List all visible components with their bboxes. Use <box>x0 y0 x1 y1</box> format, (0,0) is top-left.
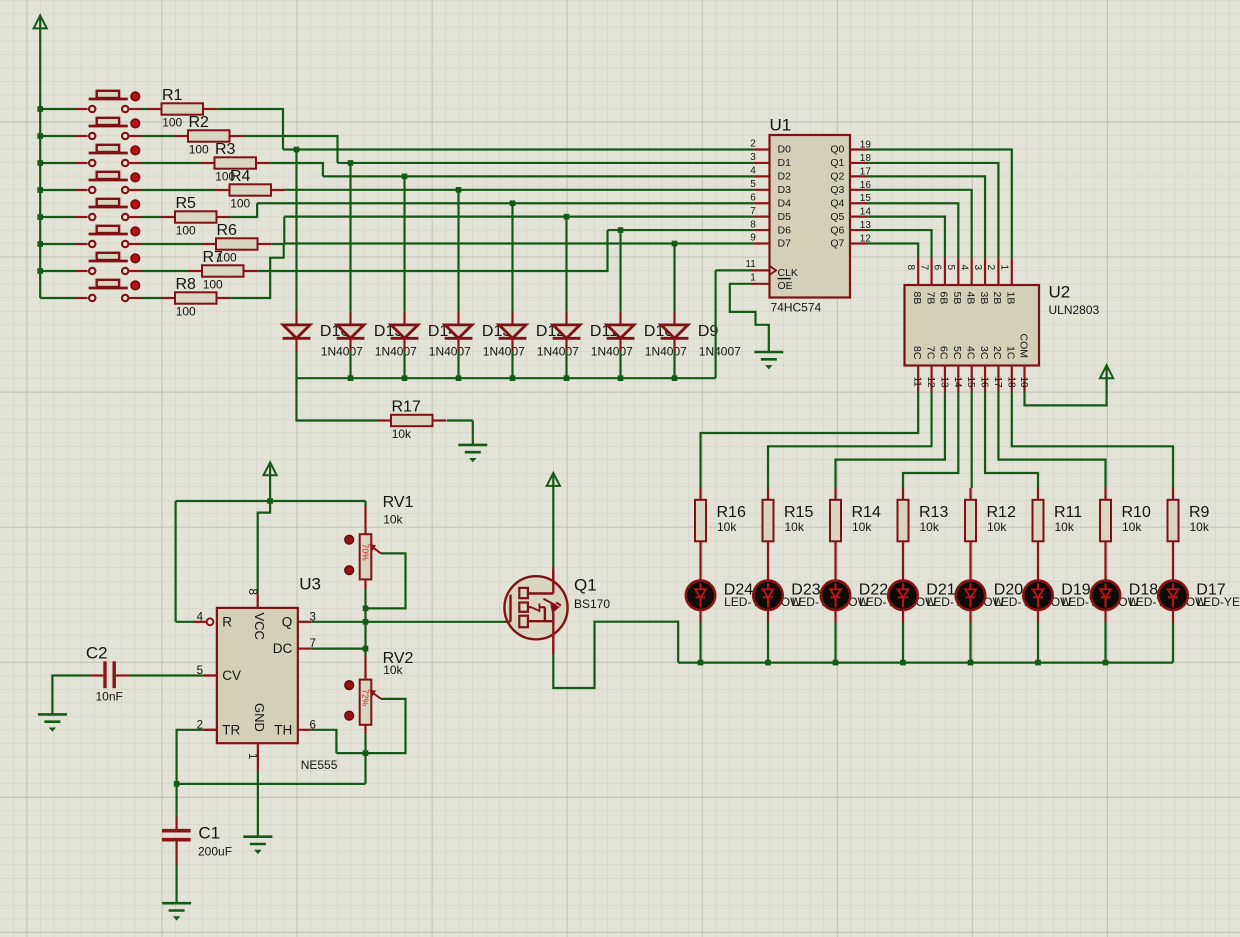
svg-text:ULN2803: ULN2803 <box>1049 303 1100 317</box>
svg-text:100: 100 <box>176 305 196 319</box>
svg-text:72%: 72% <box>361 689 371 706</box>
svg-text:VCC: VCC <box>252 613 267 640</box>
svg-text:C1: C1 <box>198 824 220 843</box>
svg-text:5: 5 <box>750 179 756 190</box>
svg-text:Q: Q <box>282 614 293 629</box>
svg-text:10k: 10k <box>920 520 940 534</box>
svg-text:RV1: RV1 <box>383 494 414 511</box>
svg-text:COM: COM <box>1017 334 1029 359</box>
svg-text:13: 13 <box>938 377 949 389</box>
svg-text:Q4: Q4 <box>830 197 844 209</box>
svg-text:C2: C2 <box>86 644 108 663</box>
svg-text:8: 8 <box>246 589 258 595</box>
svg-text:R1: R1 <box>162 87 183 104</box>
svg-text:5B: 5B <box>951 292 963 305</box>
svg-text:10k: 10k <box>1122 520 1142 534</box>
svg-text:R15: R15 <box>784 504 813 521</box>
svg-text:18: 18 <box>1005 377 1016 389</box>
svg-text:16: 16 <box>979 377 990 389</box>
svg-text:8: 8 <box>750 219 756 230</box>
svg-text:1B: 1B <box>1005 292 1017 305</box>
svg-text:GND: GND <box>252 703 267 732</box>
svg-text:Q1: Q1 <box>574 576 597 595</box>
svg-text:R16: R16 <box>717 504 746 521</box>
svg-text:3C: 3C <box>978 346 990 360</box>
svg-text:6: 6 <box>750 192 756 203</box>
svg-text:8C: 8C <box>911 346 923 360</box>
svg-text:10nF: 10nF <box>96 690 123 704</box>
svg-text:5: 5 <box>945 265 956 271</box>
svg-text:4: 4 <box>958 265 969 271</box>
svg-text:R14: R14 <box>852 504 881 521</box>
svg-text:NE555: NE555 <box>301 758 338 772</box>
svg-text:D1: D1 <box>778 157 792 169</box>
svg-text:7: 7 <box>750 206 756 217</box>
svg-text:R8: R8 <box>176 276 197 293</box>
svg-text:Q1: Q1 <box>830 157 844 169</box>
svg-text:R6: R6 <box>217 222 238 239</box>
svg-text:D2: D2 <box>778 171 792 183</box>
svg-text:10k: 10k <box>852 520 872 534</box>
svg-text:10k: 10k <box>1190 520 1210 534</box>
svg-text:17: 17 <box>992 377 1003 389</box>
svg-text:D0: D0 <box>778 144 792 156</box>
svg-text:10k: 10k <box>383 663 403 677</box>
svg-text:6B: 6B <box>938 292 950 305</box>
svg-text:10: 10 <box>1018 377 1029 389</box>
svg-text:D7: D7 <box>778 238 792 250</box>
svg-text:6C: 6C <box>938 346 950 360</box>
svg-text:R13: R13 <box>919 504 948 521</box>
svg-text:OE: OE <box>778 280 793 292</box>
svg-text:Q6: Q6 <box>830 224 844 236</box>
svg-text:5C: 5C <box>951 346 963 360</box>
svg-text:4B: 4B <box>964 292 976 305</box>
svg-text:TR: TR <box>222 722 240 737</box>
svg-text:4C: 4C <box>964 346 976 360</box>
svg-text:11: 11 <box>745 259 756 270</box>
svg-text:100: 100 <box>203 278 223 292</box>
svg-text:D5: D5 <box>778 211 792 223</box>
svg-text:Q2: Q2 <box>830 171 844 183</box>
svg-text:1N4007: 1N4007 <box>429 344 471 358</box>
svg-text:Q5: Q5 <box>830 211 844 223</box>
svg-text:200uF: 200uF <box>198 845 232 859</box>
svg-text:10k: 10k <box>785 520 805 534</box>
svg-text:1: 1 <box>750 273 756 284</box>
svg-text:3: 3 <box>972 265 983 271</box>
svg-text:Q0: Q0 <box>830 144 844 156</box>
svg-text:100: 100 <box>189 143 209 157</box>
svg-text:DC: DC <box>273 641 293 656</box>
svg-text:Q7: Q7 <box>830 238 844 250</box>
svg-text:2: 2 <box>750 139 756 150</box>
svg-text:CLK: CLK <box>778 267 798 279</box>
svg-text:U3: U3 <box>299 575 321 594</box>
svg-text:2C: 2C <box>991 346 1003 360</box>
svg-text:4: 4 <box>197 611 204 623</box>
svg-text:1N4007: 1N4007 <box>537 344 579 358</box>
svg-text:4: 4 <box>750 166 756 177</box>
svg-text:R: R <box>222 614 232 629</box>
svg-text:1N4007: 1N4007 <box>591 344 633 358</box>
svg-text:R4: R4 <box>230 168 251 185</box>
svg-text:R11: R11 <box>1054 504 1082 521</box>
svg-text:R9: R9 <box>1189 504 1210 521</box>
svg-text:R2: R2 <box>189 114 210 131</box>
svg-text:2: 2 <box>985 265 996 271</box>
svg-text:10k: 10k <box>392 427 412 441</box>
svg-text:6: 6 <box>932 265 943 271</box>
svg-text:1C: 1C <box>1005 346 1017 360</box>
svg-text:7B: 7B <box>924 292 936 305</box>
svg-text:70%: 70% <box>361 544 371 561</box>
svg-text:1N4007: 1N4007 <box>645 344 687 358</box>
svg-text:1: 1 <box>999 265 1010 271</box>
svg-text:3: 3 <box>750 152 756 163</box>
svg-text:D4: D4 <box>778 197 792 209</box>
svg-text:LED-YELLOW: LED-YELLOW <box>1197 595 1240 609</box>
svg-text:3B: 3B <box>978 292 990 305</box>
svg-text:11: 11 <box>912 377 923 388</box>
svg-text:TH: TH <box>274 722 292 737</box>
svg-text:1N4007: 1N4007 <box>699 344 741 358</box>
svg-text:8B: 8B <box>911 292 923 305</box>
svg-text:15: 15 <box>965 377 976 389</box>
svg-text:100: 100 <box>162 116 182 130</box>
svg-text:1N4007: 1N4007 <box>483 344 525 358</box>
svg-text:7: 7 <box>918 265 929 271</box>
svg-text:1: 1 <box>246 753 258 759</box>
svg-text:10k: 10k <box>383 512 403 526</box>
svg-text:14: 14 <box>952 377 963 389</box>
svg-text:R7: R7 <box>203 249 224 266</box>
svg-text:7C: 7C <box>924 346 936 360</box>
svg-text:100: 100 <box>176 224 196 238</box>
svg-text:D3: D3 <box>778 184 792 196</box>
svg-text:1N4007: 1N4007 <box>321 344 363 358</box>
svg-text:R12: R12 <box>987 504 1016 521</box>
svg-text:1N4007: 1N4007 <box>375 344 417 358</box>
svg-text:U1: U1 <box>770 116 792 135</box>
svg-text:R10: R10 <box>1122 504 1151 521</box>
svg-text:R17: R17 <box>392 399 421 416</box>
svg-text:R3: R3 <box>215 141 236 158</box>
svg-text:74HC574: 74HC574 <box>771 301 822 315</box>
svg-text:9: 9 <box>750 233 756 244</box>
svg-text:8: 8 <box>905 265 916 271</box>
svg-text:2B: 2B <box>991 292 1003 305</box>
svg-text:BS170: BS170 <box>574 597 610 611</box>
svg-text:10k: 10k <box>717 520 737 534</box>
svg-text:100: 100 <box>230 197 250 211</box>
svg-text:D6: D6 <box>778 224 792 236</box>
svg-text:CV: CV <box>222 668 241 683</box>
svg-text:U2: U2 <box>1049 283 1071 302</box>
svg-text:R5: R5 <box>176 195 197 212</box>
svg-text:10k: 10k <box>987 520 1007 534</box>
svg-text:12: 12 <box>925 377 936 389</box>
svg-text:10k: 10k <box>1055 520 1075 534</box>
svg-text:Q3: Q3 <box>830 184 844 196</box>
